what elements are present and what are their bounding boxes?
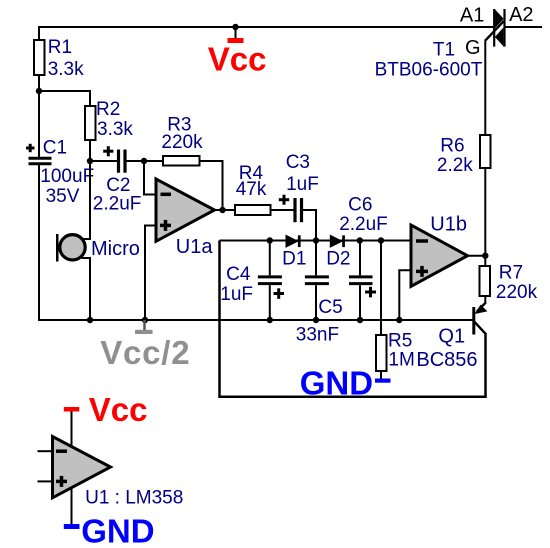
svg-text:3.3k: 3.3k (48, 59, 84, 80)
node U1b output junction (482, 253, 488, 259)
svg-text:Q1: Q1 (438, 326, 465, 348)
svg-text:Micro: Micro (91, 238, 140, 260)
diode D2 (326, 235, 350, 269)
node C5 bottom junction (313, 317, 319, 323)
microphone Micro (56, 234, 140, 262)
node R1/R2/C1 junction (36, 88, 42, 94)
svg-text:BC856: BC856 (416, 349, 477, 371)
wire ground box left/bottom (220, 241, 486, 397)
svg-text:GND: GND (81, 513, 154, 548)
capacitor C1 (26, 138, 94, 207)
ground GND bar (LM358 block) (64, 524, 80, 529)
wire R6 to output node (484, 168, 486, 256)
op-amp U1b (411, 214, 468, 287)
capacitor C4 (220, 241, 284, 321)
power Vcc symbol (LM358 block) (64, 407, 80, 412)
node mic rail junction (87, 317, 93, 323)
resistor R5 (376, 241, 415, 379)
diode D1 (282, 235, 306, 269)
triac T1 (375, 4, 534, 81)
svg-text:Vcc: Vcc (89, 391, 148, 428)
wire R3 to output (200, 161, 223, 210)
node inverting input junction (141, 158, 147, 164)
op-amp U1a (156, 179, 215, 258)
svg-text:C1: C1 (43, 138, 67, 159)
resistor R7 (480, 266, 491, 296)
resistor R2 (85, 106, 96, 140)
svg-text:Vcc/2: Vcc/2 (100, 334, 190, 371)
wire C1 to bottom rail (38, 165, 40, 321)
op-amp U1 LM358 power symbol (38, 437, 184, 509)
svg-text:220k: 220k (496, 282, 538, 303)
resistor R3 (163, 156, 200, 166)
node C2 left junction (87, 158, 93, 164)
node D1 anode junction (267, 237, 273, 243)
wire gate to R6 (484, 40, 486, 136)
wire left drop to R1 (38, 26, 40, 40)
svg-text:A2: A2 (509, 4, 533, 26)
svg-text:33nF: 33nF (296, 325, 339, 346)
svg-text:D1: D1 (282, 249, 306, 270)
wire top Vcc rail (38, 26, 494, 28)
wire node to R3 (144, 160, 163, 162)
resistor R4 (235, 205, 271, 215)
svg-text:A1: A1 (460, 4, 484, 26)
wire C3 to detector rail (303, 210, 316, 241)
wire R4 to C3 (271, 209, 294, 211)
svg-text:2.2uF: 2.2uF (93, 193, 142, 214)
node plus input rail junction (142, 317, 148, 323)
power Vcc symbol bar (top) (228, 38, 244, 43)
svg-text:1uF: 1uF (220, 284, 253, 305)
svg-text:100uF: 100uF (40, 166, 94, 187)
svg-text:C5: C5 (318, 297, 342, 318)
wire mic upper segment (84, 161, 91, 239)
node U1b plus rail junction (396, 317, 402, 323)
wire node to minus input (144, 161, 155, 195)
node D2 cathode junction (357, 237, 363, 243)
svg-text:3.3k: 3.3k (97, 119, 133, 140)
svg-text:C3: C3 (286, 152, 310, 173)
svg-text:BTB06-600T: BTB06-600T (375, 60, 483, 81)
node D1/C3/C5 junction (313, 237, 319, 243)
svg-text:Vcc: Vcc (208, 41, 267, 78)
wire U1b plus input (399, 270, 409, 320)
svg-text:GND: GND (300, 365, 373, 402)
power Vcc/2 symbol (100, 320, 190, 371)
svg-text:1uF: 1uF (286, 174, 319, 195)
wire detector rail (220, 240, 410, 242)
capacitor C3 (279, 152, 319, 222)
wire junction to R2 (39, 91, 90, 106)
wire U1b output (468, 255, 486, 257)
svg-text:47k: 47k (236, 179, 267, 200)
wire A2 segment (505, 26, 542, 28)
wire Vcc to op-amp (71, 412, 73, 448)
resistor R1 (34, 40, 45, 75)
wire mic lower segment (82, 258, 91, 320)
node R5 top junction (378, 237, 384, 243)
node output junction (219, 207, 225, 213)
svg-text:G: G (465, 37, 481, 59)
capacitor C2 (90, 146, 141, 214)
svg-text:2.2k: 2.2k (437, 155, 473, 176)
node C6 bottom junction (357, 317, 363, 323)
svg-text:R5: R5 (388, 331, 412, 352)
svg-text:U1b: U1b (430, 214, 467, 236)
svg-text:R7: R7 (499, 262, 523, 283)
svg-text:T1: T1 (433, 40, 455, 61)
resistor R6 (480, 135, 491, 168)
capacitor C6 (339, 195, 388, 321)
svg-text:2.2uF: 2.2uF (339, 214, 388, 235)
node Vcc junction (232, 24, 238, 30)
transistor Q1 (416, 303, 487, 371)
svg-text:R1: R1 (48, 37, 72, 58)
wire U1a output (215, 209, 236, 211)
svg-text:C6: C6 (348, 195, 372, 216)
wire Vcc/2 rail (38, 319, 473, 321)
wire C2 to node (127, 160, 145, 162)
capacitor C5 (296, 241, 343, 346)
svg-text:35V: 35V (46, 186, 80, 207)
svg-text:1M: 1M (388, 350, 414, 371)
svg-text:R6: R6 (440, 136, 464, 157)
svg-text:220k: 220k (161, 132, 203, 153)
node C4 bottom junction (267, 317, 273, 323)
ground GND bar (R5) (375, 379, 391, 383)
svg-text:D2: D2 (326, 249, 350, 270)
wire R1 to C1 (38, 75, 40, 157)
wire plus input (145, 226, 155, 321)
svg-text:U1 : LM358: U1 : LM358 (85, 488, 183, 509)
svg-text:R2: R2 (96, 99, 120, 120)
wire output to R7 (484, 256, 486, 266)
svg-text:C4: C4 (226, 264, 251, 285)
wire R7 to Q1 emitter (484, 296, 486, 304)
wire Vcc stub (235, 27, 237, 39)
svg-text:U1a: U1a (176, 236, 214, 258)
wire R2 to C2 node (89, 140, 91, 161)
wire op-amp to GND (71, 488, 73, 525)
